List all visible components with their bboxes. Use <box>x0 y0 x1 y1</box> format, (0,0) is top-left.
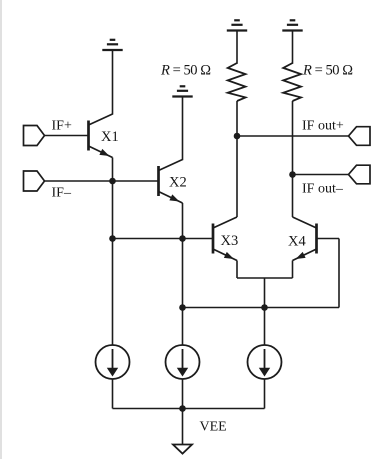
wire R1 bottom to node IF out+ <box>236 101 238 136</box>
svg-text:VEE: VEE <box>200 420 227 435</box>
junction left rail / X1 emitter <box>109 235 116 242</box>
transistor X3 (NPN) <box>213 217 237 261</box>
wire X1 emitter down to bottom rail and current source SRC1 <box>112 158 114 346</box>
wire right drop down to lower rail <box>338 239 340 308</box>
wire join middle down to current source SRC3 <box>264 278 266 346</box>
wire G4 stem to X2 collector <box>182 97 184 161</box>
wire X3 emitter down to join <box>236 261 238 279</box>
svg-text:IF out+: IF out+ <box>302 119 344 134</box>
wire emitter join horizontal <box>237 277 293 279</box>
junction node IF out+ <box>234 133 241 140</box>
wire G2 stem to R1 top <box>236 31 238 64</box>
transistor X2 (NPN) <box>159 160 183 204</box>
wire VEE stem <box>182 409 184 445</box>
current source SRC2 <box>166 345 200 379</box>
wire X3 collector up to node IF out+ <box>236 136 238 217</box>
wire G3 stem to R2 top <box>292 31 294 64</box>
ground G1 (above X1 collector) <box>102 40 122 50</box>
svg-text:IF out–: IF out– <box>302 182 344 197</box>
wire SRC3 to bottom rail <box>264 379 266 409</box>
wire node IF out+ to output port <box>237 135 349 137</box>
resistor R2 zigzag <box>283 63 301 101</box>
wire X2 emitter down through rails to current source SRC2 <box>182 203 184 346</box>
junction lower rail / X2 emitter <box>179 304 186 311</box>
ground VEE triangle <box>173 445 192 454</box>
wire X4 base to right drop <box>317 238 340 240</box>
wire rail X1 emitter node to X3 base <box>113 238 214 240</box>
svg-text:X2: X2 <box>169 175 187 191</box>
junction bottom rail / VEE stem <box>179 405 186 412</box>
wire lower rail to X2 emitter line <box>183 307 340 309</box>
svg-text:X1: X1 <box>101 129 119 145</box>
wire IF- port to X2 base <box>45 180 159 182</box>
wire IF+ port to X1 base <box>45 135 89 137</box>
page left edge artifact line <box>0 0 2 459</box>
current source SRC1 <box>96 345 130 379</box>
svg-text:X4: X4 <box>288 234 306 250</box>
wire G1 stem to X1 collector <box>112 50 114 115</box>
port P4 IF out- <box>349 165 371 184</box>
wire R2 bottom to node IF out- <box>292 101 294 175</box>
wire X4 collector up to node IF out- <box>292 175 294 218</box>
wire bottom rail VEE <box>113 408 265 410</box>
resistor R1 zigzag <box>228 63 246 101</box>
port P2 IF- <box>24 171 45 191</box>
wire X4 emitter down to join <box>292 261 294 279</box>
svg-text:R = 50 Ω: R = 50 Ω <box>160 63 211 79</box>
svg-text:X3: X3 <box>221 233 239 249</box>
ground G2 (above R1) <box>227 20 247 30</box>
transistor X4 (NPN) <box>293 217 317 261</box>
wire node IF out- to output port <box>293 174 349 176</box>
svg-text:R = 50 Ω: R = 50 Ω <box>302 63 353 79</box>
wire SRC1 to bottom rail <box>112 379 114 409</box>
svg-text:IF–: IF– <box>52 186 72 201</box>
ground G4 (above X2 collector) <box>172 86 192 96</box>
junction left rail / X2 emitter <box>179 235 186 242</box>
junction lower rail / SRC3 stem <box>261 304 268 311</box>
junction X1 emitter / IF- wire <box>109 178 116 185</box>
junction node IF out- <box>289 171 296 178</box>
port P1 IF+ <box>24 126 45 146</box>
transistor X1 (NPN) <box>89 114 113 158</box>
svg-text:IF+: IF+ <box>52 119 72 134</box>
current source SRC3 <box>248 345 282 379</box>
port P3 IF out+ <box>349 127 371 146</box>
wire SRC2 to bottom rail <box>182 379 184 409</box>
ground G3 (above R2) <box>282 20 302 30</box>
